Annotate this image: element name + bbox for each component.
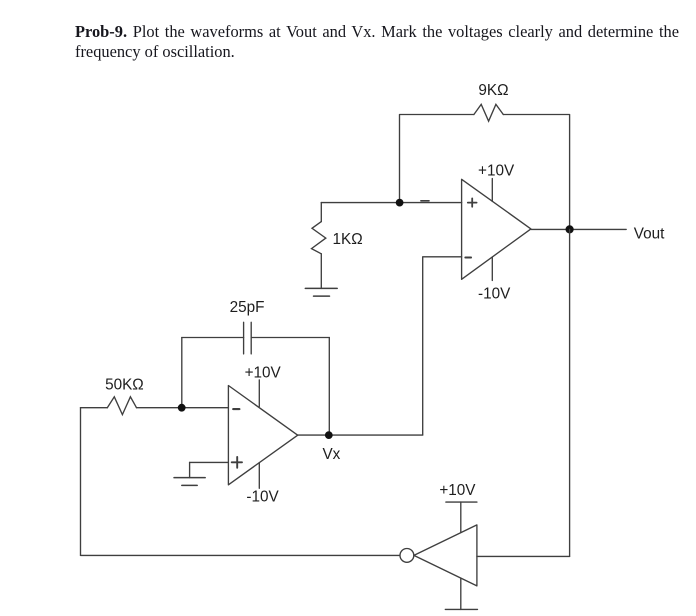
resistor 9KΩ (feedback): [474, 104, 503, 121]
wire: U1 negative supply stub: [258, 463, 260, 488]
wire: 1K top lead: [320, 203, 322, 222]
wire: U3 positive supply stub: [460, 502, 462, 532]
U3 positive supply T-bar: [446, 501, 477, 503]
inverter U3 bubble: [400, 549, 414, 563]
svg-text:50KΩ: 50KΩ: [105, 376, 144, 393]
wire: bottom feedback wire from inverter bubble to left rail: [81, 554, 401, 556]
U3 negative supply T-bar: [445, 608, 477, 610]
svg-text:+10V: +10V: [245, 364, 282, 381]
ground (U1 plus input): [174, 478, 205, 486]
op-amp U1 (integrator, bottom left): [228, 386, 297, 485]
wire: U1 output to Vx and on to U2 minus riser: [298, 434, 423, 436]
op-amp U2 (comparator, top right): [462, 179, 531, 279]
svg-text:-10V: -10V: [478, 286, 511, 303]
wire: capacitor left lead: [182, 337, 244, 339]
wire: U1 positive supply stub: [258, 380, 260, 407]
ground (below 1K): [305, 288, 337, 296]
wire: ground drop at U1 plus input: [189, 462, 191, 477]
U1 plus input pin mark: [232, 457, 242, 468]
svg-text:25pF: 25pF: [230, 299, 265, 316]
wire: capacitor right lead: [251, 337, 329, 339]
wire: right feedback riser down to Vx node: [328, 338, 330, 436]
capacitor 25pF: [244, 322, 252, 354]
wire: U2 output to Vout: [531, 228, 626, 230]
resistor 1KΩ: [312, 222, 326, 254]
problem statement text: [75, 22, 679, 62]
wire: 1K bottom lead: [320, 254, 322, 289]
wire: U3 negative supply stub: [460, 578, 462, 609]
wire: U1 plus input wire: [190, 461, 229, 463]
svg-text:-10V: -10V: [246, 488, 279, 505]
wire: from 1K resistor top to op-amp U2 plus input: [321, 202, 461, 204]
U1 minus input pin mark: [233, 408, 239, 410]
U2 plus input pin mark: [468, 198, 477, 206]
wire: left rail down from input wire: [80, 408, 82, 556]
wire: U2 minus input wire from Vx riser: [423, 257, 462, 435]
wire: right rail from Vout node down to inverter output wire: [569, 229, 571, 556]
node A (junction of feedback and U2 + input): [396, 199, 404, 207]
svg-text:9KΩ: 9KΩ: [478, 82, 508, 99]
node B (junction of 50K, capacitor and U1 minus input): [178, 404, 186, 412]
node Vout (junction): [566, 225, 574, 233]
U2 minus input pin mark: [465, 257, 471, 259]
wire: U2 positive supply stub: [491, 179, 493, 202]
stray dash mark: [421, 200, 429, 202]
svg-text:Vx: Vx: [322, 446, 340, 463]
wire: top feedback wire right segment and right riser down to output node: [503, 115, 569, 230]
wire: from 50K to U1 minus input: [137, 407, 229, 409]
wire: top-left riser and top feedback wire left segment: [400, 115, 474, 203]
svg-text:1KΩ: 1KΩ: [333, 231, 363, 248]
node Vx (junction): [325, 431, 333, 439]
wire: input wire from left rail to 50K: [81, 407, 108, 409]
svg-text:+10V: +10V: [478, 163, 515, 180]
wire: left feedback riser down to U1 minus input node: [181, 338, 183, 408]
svg-text:+10V: +10V: [439, 482, 476, 499]
resistor 50KΩ: [107, 397, 136, 415]
inverter U3 (triangle): [414, 525, 477, 586]
svg-text:Vout: Vout: [634, 226, 665, 243]
wire: U2 negative supply stub: [491, 257, 493, 281]
wire: U3 input wire from right rail: [477, 555, 570, 557]
